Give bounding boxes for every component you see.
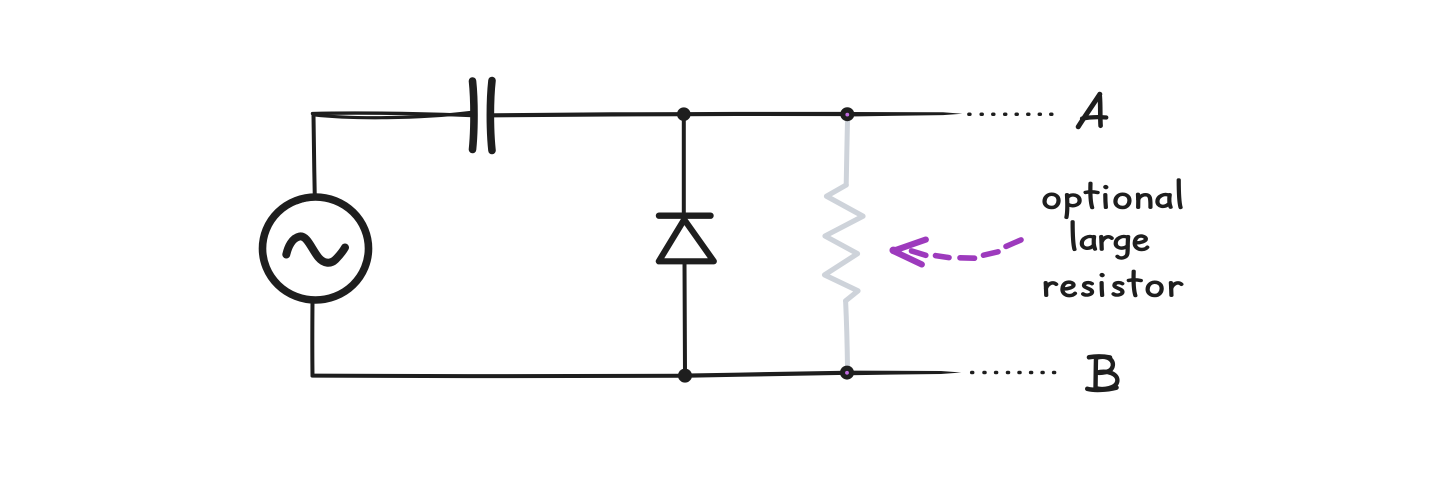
resistor R1 (light gray): upper lead: [846, 120, 847, 185]
wire: top rail resistor node to open end (tapered solid wedge): [850, 112, 962, 117]
text line 2: "large": [1073, 222, 1075, 250]
wire: bottom rail resistor node to open end (tapered solid wedge): [850, 371, 961, 376]
resistor R1: zigzag body: [825, 185, 864, 301]
terminal label B: [1087, 356, 1117, 389]
junction node: bottom of resistor (with violet endpoint dot): [840, 366, 854, 380]
AC source V1: circle: [263, 197, 369, 300]
capacitor C1: left plate: [473, 81, 475, 150]
dotted lead to terminal B: [972, 371, 973, 375]
text line 3: "resistor": [1046, 283, 1057, 296]
wire: top-left rail, sketchy double stroke to capacitor: [313, 113, 473, 116]
wire: left vertical bottom (source to bottom rail): [310, 301, 314, 376]
wire: top rail capacitor to diode node: [494, 114, 682, 115]
wire: diode branch upper (top rail to diode bar): [682, 116, 686, 214]
resistor R1: lower lead: [846, 301, 848, 367]
junction node: bottom of diode branch: [678, 369, 692, 383]
junction node: top of resistor (with violet endpoint dot): [840, 107, 854, 121]
diode D1: triangle (anode): [659, 220, 714, 262]
capacitor C1: right plate: [490, 81, 492, 151]
wire: left vertical top (source to top rail): [314, 116, 315, 198]
AC source V1: sine wave symbol: [286, 236, 345, 262]
terminal label A: [1078, 94, 1106, 127]
annotation arrow (violet dashed, pointing left at resistor): [893, 240, 1021, 265]
wire: bottom rail, diode node to resistor node: [687, 373, 845, 376]
wire: diode branch lower (diode to bottom rail): [683, 262, 688, 374]
wire: top rail diode node to resistor node: [686, 112, 846, 117]
AC source V1: sketch overlap arc at top: [297, 198, 337, 202]
wire: bottom rail, source to diode node: [313, 374, 684, 379]
dotted lead to terminal A: [969, 112, 970, 116]
text line 1: "optional": [1045, 194, 1059, 207]
diode D1: cathode bar: [659, 212, 711, 218]
junction node: top of diode branch: [677, 107, 691, 121]
